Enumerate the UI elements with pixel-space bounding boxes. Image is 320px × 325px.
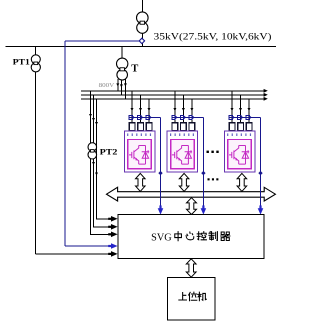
arrow into controller 2 xyxy=(108,226,111,228)
arrow PT2 below 2 xyxy=(95,173,98,176)
power module 1 phase wires xyxy=(131,91,133,123)
arrow sensor into controller module 1 xyxy=(159,205,161,208)
wire T secondary a xyxy=(117,79,119,91)
ellipsis modules bottom xyxy=(208,178,219,180)
fuse wires module 2 xyxy=(172,123,178,131)
arrow sensor into controller module 3 xyxy=(259,205,261,208)
wire PT2 tap 1 xyxy=(91,91,111,235)
arrow controller to host xyxy=(186,259,196,277)
wire sensor link drop module 1 xyxy=(160,117,162,211)
PT2 xyxy=(88,143,97,159)
arrow sensor into controller module 2 xyxy=(202,205,204,208)
wire sensor link drop module 3 xyxy=(260,117,262,211)
pin labels module 3 xyxy=(227,133,251,136)
power unit box U3 xyxy=(224,131,255,172)
power unit box U1 xyxy=(124,131,155,172)
comm arrow module 2 xyxy=(179,173,189,191)
svg-text:PT1: PT1 xyxy=(13,56,30,66)
svg-text:PT2: PT2 xyxy=(100,146,118,156)
label host computer xyxy=(179,292,206,301)
IGBT icon module 2 xyxy=(172,146,192,165)
comm arrow module 1 xyxy=(136,173,146,191)
node sensor drop module 1 xyxy=(158,171,162,175)
wire PT1 sense down xyxy=(34,72,36,254)
fuse wires module 1 xyxy=(129,123,135,131)
wire T secondary b xyxy=(120,80,122,95)
transformer incoming 35kV xyxy=(137,12,149,33)
arrow bus to controller xyxy=(187,198,197,215)
comm arrow module 3 xyxy=(237,173,247,191)
wire PT1 sense to controller xyxy=(35,253,110,255)
SVG central controller box xyxy=(118,215,264,259)
power module 3 phase wires xyxy=(231,91,233,123)
current sensors module 2 xyxy=(172,116,203,118)
pin labels module 1 xyxy=(127,133,151,136)
bus 800V phase A xyxy=(81,90,265,92)
inverter inner box module 2 xyxy=(171,140,194,169)
wire transformer to bus xyxy=(141,33,143,46)
fuse wires module 3 xyxy=(229,123,235,131)
bus 35kV xyxy=(5,45,275,47)
inverter inner box module 1 xyxy=(128,140,151,169)
bus 800V phase B xyxy=(81,94,265,96)
wire 35kV sense horizontal xyxy=(65,40,139,42)
IGBT icon module 1 xyxy=(129,146,149,165)
node sensor drop module 2 xyxy=(201,171,205,175)
wire T secondary c xyxy=(124,79,126,99)
wire 35kV sense to controller xyxy=(65,245,110,247)
node 35kV voltage tap xyxy=(139,38,144,43)
power unit box U2 xyxy=(167,131,198,172)
wire incoming feeder xyxy=(141,0,143,12)
svg-text:SVG: SVG xyxy=(151,232,172,243)
wire PT2 tap 3 xyxy=(97,99,111,219)
host computer box xyxy=(168,278,215,320)
svg-text:800V: 800V xyxy=(99,82,115,89)
arrow into controller 3 xyxy=(108,218,111,220)
arrow into controller 1 xyxy=(108,233,111,235)
pin labels module 2 xyxy=(170,133,194,136)
bus 800V phase C xyxy=(81,98,265,100)
wire PT1 tap xyxy=(34,46,36,55)
svg-text:35kV(27.5kV, 10kV,6kV): 35kV(27.5kV, 10kV,6kV) xyxy=(154,32,272,43)
IGBT icon module 3 xyxy=(229,146,249,165)
svg-text:T: T xyxy=(131,63,138,74)
label controller chinese xyxy=(175,232,230,241)
communication bus double arrow xyxy=(107,187,276,201)
PT1 xyxy=(31,55,40,72)
current sensors module 1 xyxy=(129,116,160,118)
ellipsis modules top xyxy=(207,151,219,153)
wire T primary xyxy=(121,46,123,58)
wire PT2 tap 2 xyxy=(94,95,111,227)
node sensor drop module 3 xyxy=(258,171,262,175)
inverter inner box module 3 xyxy=(228,140,251,169)
transformer T xyxy=(117,58,128,80)
arrow PT2 below 1 xyxy=(92,162,95,165)
wire sensor link drop module 2 xyxy=(202,117,204,211)
power module 2 phase wires xyxy=(174,91,176,123)
wire 35kV sense vertical xyxy=(64,41,66,246)
current sensors module 3 xyxy=(229,116,260,118)
